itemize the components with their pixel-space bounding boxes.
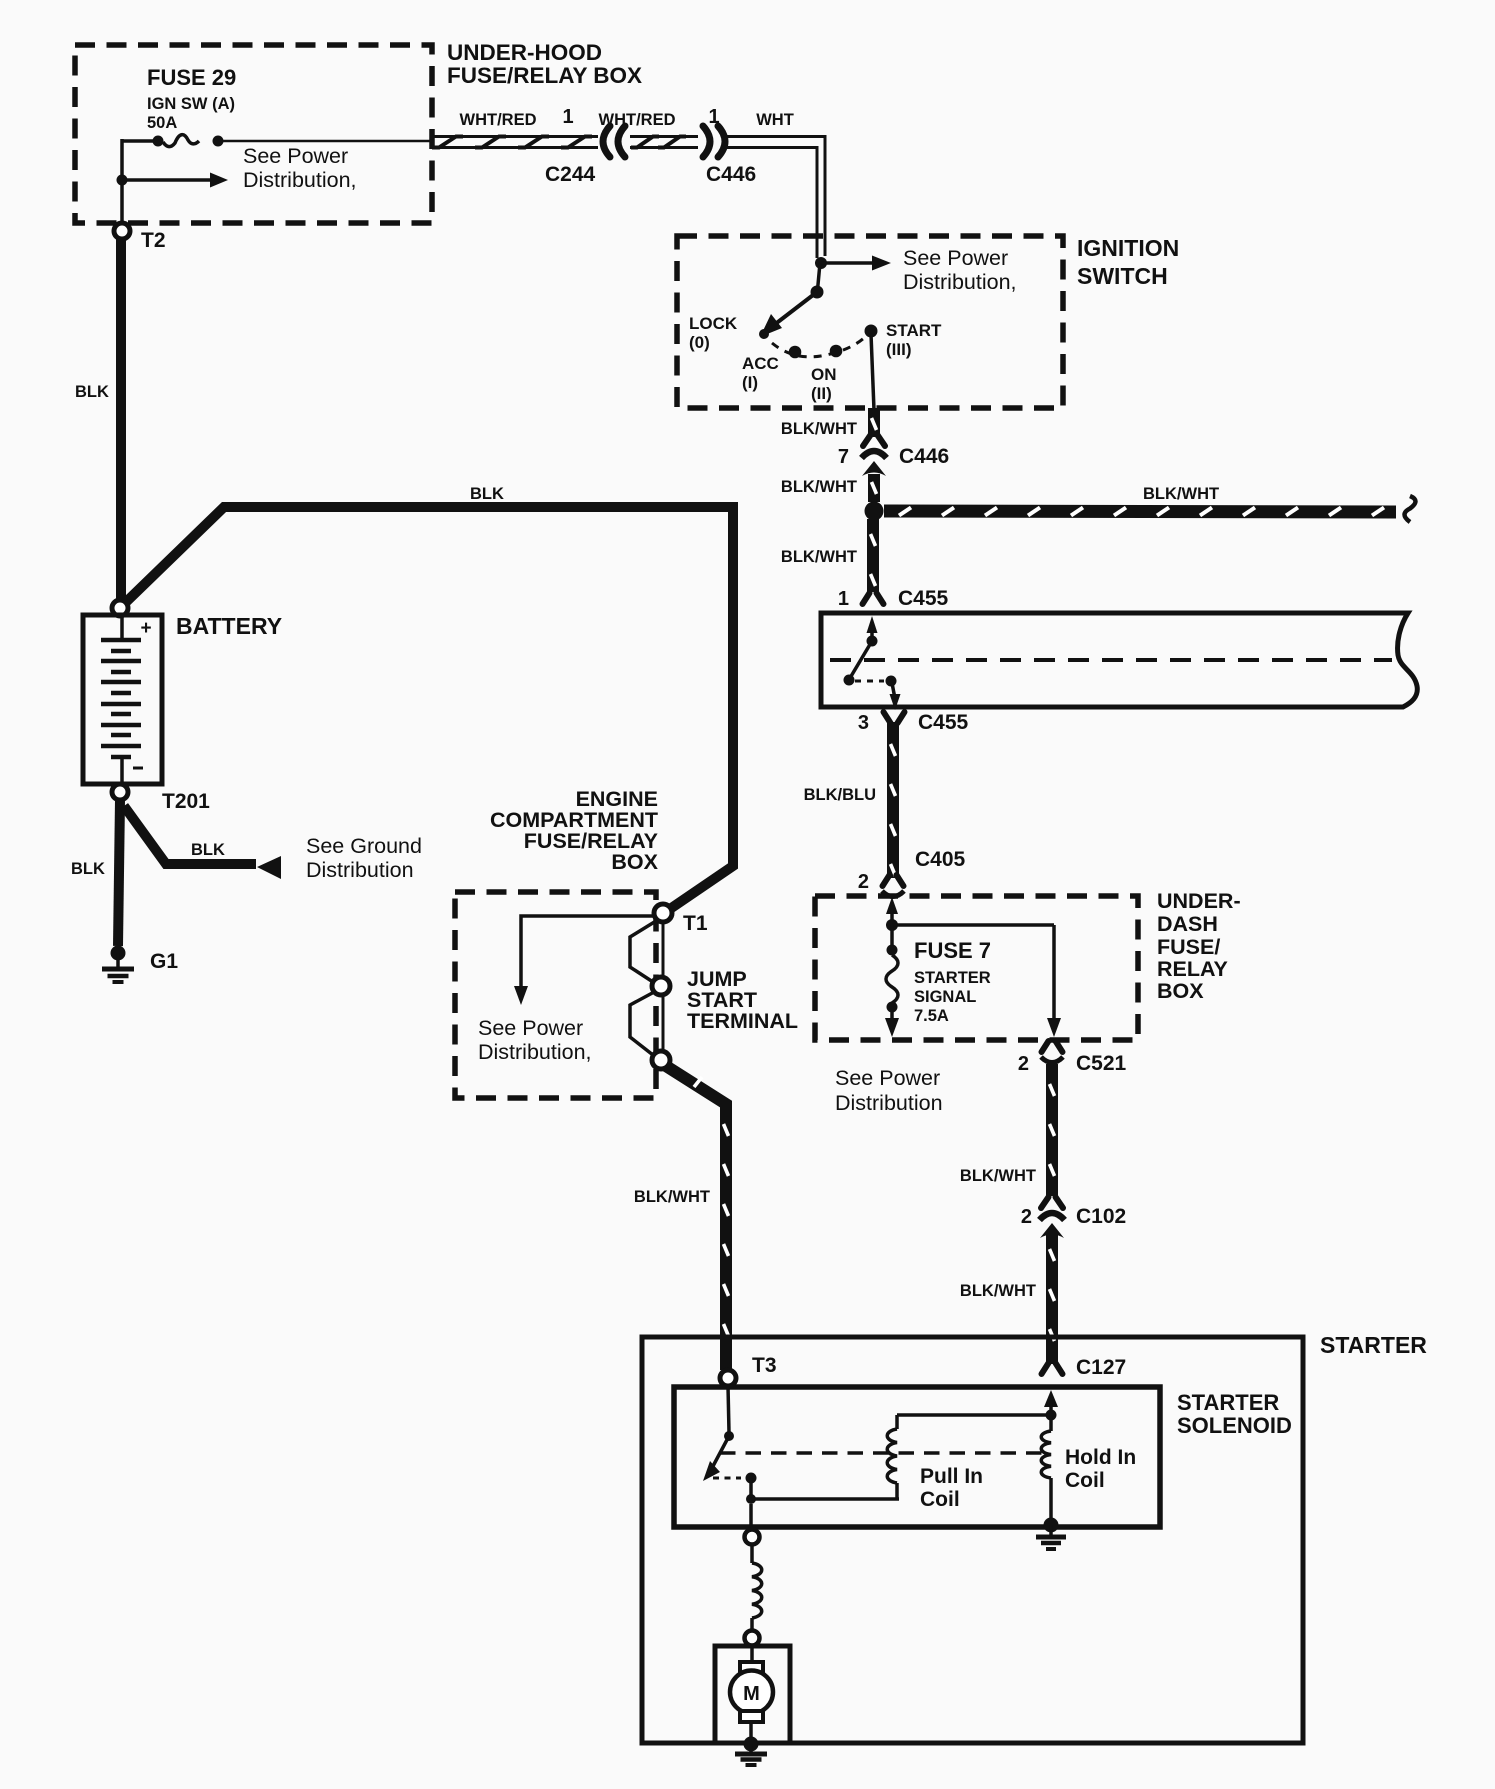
node contact ON: [830, 345, 843, 358]
svg-text:T3: T3: [752, 1354, 777, 1377]
svg-text:BLK/BLU: BLK/BLU: [804, 786, 876, 804]
svg-text:Distribution,: Distribution,: [243, 168, 357, 192]
under-dash fuse/relay box: [815, 896, 1138, 1040]
wire BLK/WHT (horizontal run to right edge): [884, 508, 1396, 516]
svg-text:START: START: [886, 321, 942, 340]
svg-text:SIGNAL: SIGNAL: [914, 988, 976, 1006]
svg-text:1: 1: [562, 106, 573, 128]
ignition detent arc (dashed): [772, 338, 864, 357]
svg-text:BLK/WHT: BLK/WHT: [781, 548, 857, 566]
svg-text:2: 2: [858, 871, 869, 893]
hold in coil L2: [1041, 1415, 1051, 1525]
node junction (ignition feed): [815, 257, 827, 269]
svg-text:LOCK: LOCK: [689, 314, 738, 333]
see power distribution arrow (ignition): [821, 256, 891, 271]
svg-text:C455: C455: [898, 587, 949, 610]
motor brush (bottom): [740, 1711, 763, 1722]
connector C521 (pin 2): [1041, 1041, 1063, 1063]
solenoid mechanical link (dashed): [720, 1451, 1042, 1455]
svg-text:See Ground: See Ground: [306, 834, 422, 858]
wire WHT/RED (under-hood to C244): [432, 137, 598, 148]
battery B1: [83, 615, 162, 784]
svg-text:Coil: Coil: [1065, 1469, 1105, 1492]
wire BLK to ground distribution: [124, 806, 281, 879]
svg-text:BLK: BLK: [191, 841, 225, 859]
starter motor housing: [715, 1646, 790, 1743]
wire ignition common: [818, 263, 821, 290]
node contact ACC: [789, 346, 802, 359]
switch inside component box: [844, 616, 901, 710]
node ignition rotor pivot: [811, 286, 824, 299]
svg-text:See Power: See Power: [835, 1066, 940, 1090]
svg-text:Hold In: Hold In: [1065, 1446, 1136, 1469]
svg-text:See Power: See Power: [903, 246, 1008, 270]
wire BLK/WHT C102 to C127: [1050, 1234, 1055, 1364]
engine compartment fuse/relay box: [455, 892, 656, 1098]
svg-text:WHT/RED: WHT/RED: [460, 111, 537, 129]
svg-text:C244: C244: [545, 163, 596, 186]
svg-text:IGNITION: IGNITION: [1077, 235, 1179, 261]
svg-text:(0): (0): [689, 333, 710, 352]
svg-text:7.5A: 7.5A: [914, 1007, 949, 1025]
svg-text:Distribution,: Distribution,: [478, 1040, 592, 1064]
svg-text:C102: C102: [1076, 1205, 1126, 1228]
svg-text:BLK/WHT: BLK/WHT: [781, 420, 857, 438]
terminal T3 node: [720, 1370, 736, 1386]
svg-text:C446: C446: [706, 163, 756, 186]
svg-text:RELAY: RELAY: [1157, 957, 1228, 981]
svg-text:+: +: [140, 618, 151, 639]
node junction below fuse F29: [117, 139, 128, 225]
ground motor ground: [735, 1737, 767, 1766]
jump start middle node: [652, 977, 670, 995]
svg-text:1: 1: [838, 588, 849, 610]
svg-text:BATTERY: BATTERY: [176, 613, 282, 639]
svg-text:Distribution,: Distribution,: [903, 270, 1017, 294]
connector C446 (horizontal): [703, 126, 725, 157]
connector C102 (pin 2): [1040, 1197, 1065, 1238]
svg-text:See Power: See Power: [243, 144, 348, 168]
svg-text:Pull In: Pull In: [920, 1465, 983, 1488]
wire BLK/BLU C455 to C405: [891, 722, 896, 878]
jump start terminal stud: [630, 921, 663, 1055]
wire motor to ground: [749, 1722, 753, 1740]
svg-text:BLK/WHT: BLK/WHT: [781, 478, 857, 496]
svg-text:BOX: BOX: [1157, 979, 1204, 1003]
terminal T2: [114, 223, 130, 239]
fuse F29 element: [122, 135, 433, 147]
svg-text:SWITCH: SWITCH: [1077, 263, 1168, 289]
solenoid contact switch: [703, 1386, 757, 1504]
svg-text:FUSE 29: FUSE 29: [147, 65, 236, 90]
under-hood fuse/relay box: [75, 45, 432, 223]
svg-text:M: M: [743, 1683, 760, 1705]
svg-text:C446: C446: [899, 445, 949, 468]
wire WHT/RED (C244 to C446): [630, 137, 698, 148]
connector C455 (pin 3): [884, 712, 905, 723]
wire BLK/WHT ignition to C446: [872, 408, 877, 437]
svg-text:BLK: BLK: [470, 485, 504, 503]
svg-text:Distribution: Distribution: [835, 1091, 943, 1115]
wire BLK T2 to battery: [116, 239, 126, 600]
node junction (fuse 7 feed): [886, 919, 898, 931]
solenoid output terminal: [745, 1504, 760, 1563]
node junction hold-in coil top: [1046, 1410, 1057, 1421]
wire BLK/WHT jump start to T3: [666, 1066, 729, 1370]
terminal T201 node: [112, 784, 128, 800]
svg-text:UNDER-: UNDER-: [1157, 889, 1241, 913]
wire BLK T201 to G1: [118, 800, 120, 946]
svg-text:FUSE/: FUSE/: [1157, 935, 1220, 959]
svg-text:C405: C405: [915, 848, 966, 871]
motor M1: [730, 1671, 773, 1714]
svg-text:(II): (II): [811, 384, 832, 403]
connector C446 (vertical, pin 7): [862, 435, 887, 476]
battery positive terminal node: [112, 600, 128, 616]
svg-text:ON: ON: [811, 365, 837, 384]
svg-text:2: 2: [1018, 1053, 1029, 1075]
svg-text:ACC: ACC: [742, 354, 779, 373]
svg-text:3: 3: [858, 712, 869, 734]
svg-text:BLK: BLK: [75, 383, 109, 401]
terminal T1 node: [654, 904, 672, 922]
svg-text:BLK/WHT: BLK/WHT: [960, 1167, 1036, 1185]
starter solenoid box: [674, 1387, 1160, 1527]
svg-text:7: 7: [838, 446, 849, 468]
wire BLK/WHT junction to C455: [871, 519, 876, 592]
wire break symbol (S): [1405, 496, 1416, 522]
svg-text:T201: T201: [162, 790, 210, 813]
ground solenoid ground: [1036, 1518, 1066, 1550]
svg-text:BLK/WHT: BLK/WHT: [1143, 485, 1219, 503]
svg-text:2: 2: [1021, 1206, 1032, 1228]
ignition switch box: [677, 236, 1063, 408]
svg-text:T1: T1: [683, 912, 708, 935]
svg-text:50A: 50A: [147, 114, 177, 132]
svg-text:STARTER: STARTER: [1320, 1332, 1427, 1358]
see power distribution arrow (engine box): [514, 916, 654, 1005]
svg-text:UNDER-HOOD: UNDER-HOOD: [447, 40, 602, 65]
node junction BLK/WHT splice: [865, 502, 884, 521]
wire BLK/WHT C446 to junction: [872, 474, 877, 502]
svg-text:See Power: See Power: [478, 1016, 583, 1040]
connector C405 (pin 2): [882, 875, 904, 897]
fuse F7 element: [885, 925, 899, 1037]
svg-text:Distribution: Distribution: [306, 858, 414, 882]
svg-text:WHT: WHT: [756, 111, 794, 129]
wire BLK battery to engine compartment box (thick run): [125, 507, 733, 911]
motor brush (top): [740, 1662, 763, 1673]
connector C127: [1042, 1363, 1063, 1374]
C127 mate arrow into solenoid: [1044, 1390, 1058, 1415]
connector C455 (pin 1): [863, 593, 884, 604]
motor input terminal: [745, 1618, 760, 1662]
jump start lower node: [652, 1051, 670, 1069]
svg-text:BLK/WHT: BLK/WHT: [634, 1188, 710, 1206]
component box (gauge assembly, torn edge): [821, 613, 1417, 707]
svg-text:T2: T2: [141, 229, 166, 252]
svg-text:Coil: Coil: [920, 1488, 960, 1511]
svg-text:SOLENOID: SOLENOID: [1177, 1413, 1292, 1438]
pull in coil L1: [751, 1415, 1051, 1499]
svg-text:TERMINAL: TERMINAL: [687, 1009, 798, 1033]
svg-text:STARTER: STARTER: [914, 969, 991, 987]
svg-text:IGN SW (A): IGN SW (A): [147, 95, 235, 113]
wire bypass to C521: [892, 925, 1061, 1037]
svg-text:WHT/RED: WHT/RED: [599, 111, 676, 129]
wire WHT (C446 to ignition switch): [727, 135, 827, 258]
svg-text:C127: C127: [1076, 1356, 1126, 1379]
wire BLK/WHT C521 to C102: [1050, 1064, 1055, 1196]
svg-text:C455: C455: [918, 711, 969, 734]
starter feed coil: [752, 1563, 762, 1618]
see power distribution arrow (under-hood): [122, 173, 228, 188]
svg-text:BLK: BLK: [71, 860, 105, 878]
svg-text:BOX: BOX: [611, 850, 658, 874]
ground G1: [102, 946, 134, 983]
svg-text:G1: G1: [150, 950, 178, 973]
ignition switch rotor arm: [759, 292, 817, 339]
wire START to box edge: [871, 334, 874, 410]
node contact START: [865, 325, 878, 338]
connector C244: [603, 126, 625, 157]
svg-text:FUSE/RELAY BOX: FUSE/RELAY BOX: [447, 63, 642, 88]
svg-text:BLK/WHT: BLK/WHT: [960, 1282, 1036, 1300]
svg-text:FUSE 7: FUSE 7: [914, 938, 991, 963]
svg-text:(I): (I): [742, 373, 758, 392]
svg-text:(III): (III): [886, 340, 912, 359]
dashed line inside component box: [830, 658, 1392, 662]
starter box: [642, 1337, 1303, 1743]
svg-text:DASH: DASH: [1157, 912, 1218, 936]
svg-text:STARTER: STARTER: [1177, 1390, 1279, 1415]
arrow into under-dash box: [886, 897, 898, 924]
svg-text:C521: C521: [1076, 1052, 1127, 1075]
